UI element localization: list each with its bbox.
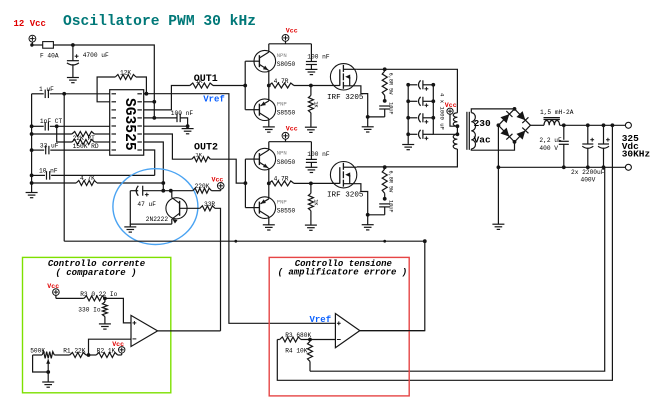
svg-text:PNP: PNP <box>277 198 288 205</box>
ground pulldown A <box>305 127 317 132</box>
svg-text:12 Vcc: 12 Vcc <box>14 19 46 29</box>
junction driver B base <box>244 181 248 185</box>
junction bank right <box>431 116 435 120</box>
wire OUT1 to driver1 base <box>213 85 245 87</box>
resistor gate pulldown 1K B <box>310 183 312 193</box>
wire 100nF to gnd node <box>180 118 187 126</box>
junction outer feedback tap <box>611 123 615 127</box>
M A drain tap <box>343 68 356 70</box>
svg-text:F 40A: F 40A <box>40 53 59 60</box>
wire Vcc to center tap <box>450 114 457 126</box>
wire wiper to ground <box>47 372 49 382</box>
wire source to ground B <box>367 215 369 225</box>
ground IC decoupling <box>187 126 189 128</box>
junction emitters A <box>267 84 271 88</box>
ground source B <box>362 225 374 230</box>
wire gate B <box>311 182 340 184</box>
Q NPN B emitter <box>259 162 268 168</box>
svg-text:R1 22K: R1 22K <box>63 347 86 354</box>
junction snubber mid B <box>383 197 387 201</box>
svg-text:Vcc: Vcc <box>286 126 298 133</box>
wire cap bank right rail <box>433 85 458 135</box>
wire pin11 to OUT1 resistor <box>144 86 190 110</box>
wire error amp output bus <box>64 241 425 330</box>
svg-text:4700 uF: 4700 uF <box>83 52 109 59</box>
wire cap bank left rail <box>407 85 409 144</box>
svg-text:500K: 500K <box>30 347 45 354</box>
resistor 4,7R B <box>269 181 294 186</box>
svg-text:6,8R 5W: 6,8R 5W <box>387 73 393 96</box>
junction 2,2uF top <box>562 123 566 127</box>
wire pin R5 <box>144 125 188 127</box>
M B gate bar <box>339 167 341 184</box>
junction 1uF line <box>62 92 66 96</box>
transistor PNP S8550 A circle <box>254 99 276 121</box>
svg-text:Vref: Vref <box>310 315 332 325</box>
svg-text:100 nF: 100 nF <box>171 110 194 117</box>
ground 100nF A <box>305 69 317 74</box>
resistor 220K <box>193 188 212 193</box>
wire OUT2 to driver2 base jog <box>210 159 245 183</box>
wire minus to ground <box>497 167 499 224</box>
resistor 150K RD <box>72 140 94 145</box>
capacitor 4700 uF <box>67 61 79 65</box>
wire inner feedback 0V to R4 <box>310 167 605 371</box>
Q1 emitter <box>172 213 179 219</box>
wire 47uF node to 220K <box>163 190 193 192</box>
transformer T1 primary top winding <box>453 113 457 126</box>
ground pot <box>42 382 54 387</box>
svg-text:22K RT: 22K RT <box>73 135 96 142</box>
svg-text:1K: 1K <box>313 199 319 206</box>
Q PNP A emitter <box>261 101 269 106</box>
capacitor 1000uF #2 <box>408 100 417 102</box>
svg-text:Oscillatore PWM 30 kHz: Oscillatore PWM 30 kHz <box>63 12 256 30</box>
inductor 1,5 mH-2A <box>544 120 560 125</box>
Q1 base wire <box>180 207 200 209</box>
op IC SG3525 body <box>110 90 144 156</box>
svg-text:1K: 1K <box>195 152 202 159</box>
junction emitters B <box>267 182 271 186</box>
svg-text:4,7R: 4,7R <box>274 176 289 183</box>
wire source to ground A <box>367 117 369 127</box>
wire secondary top to bridge <box>471 109 514 113</box>
junction snubber mid A <box>383 99 387 103</box>
transistor PNP S8550 B circle <box>254 197 276 219</box>
junction bank right <box>431 99 435 103</box>
Q PNP A collector <box>259 113 268 119</box>
ground PNP A <box>263 127 275 132</box>
wire driver B base rail <box>244 159 246 208</box>
Vcc terminal shunt <box>53 289 60 296</box>
Vcc terminal driver B <box>282 132 289 139</box>
wire shunt to comparator plus <box>105 298 131 323</box>
junction driver A base <box>243 84 247 88</box>
svg-text:2x 2200uF: 2x 2200uF <box>571 169 605 176</box>
Q NPN B base wire <box>245 158 259 160</box>
svg-text:2N2222: 2N2222 <box>146 216 169 223</box>
ground 330 <box>99 324 111 329</box>
resistor 12K <box>115 75 136 80</box>
wire minus rail <box>498 166 625 168</box>
resistor 1K OUT2 <box>192 157 211 162</box>
junction CT branch <box>55 124 59 128</box>
transformer T1 core <box>466 112 468 150</box>
wire node to capacitor 4700uF <box>72 45 74 61</box>
junction center tap <box>456 124 460 128</box>
svg-text:SG3525: SG3525 <box>121 98 137 151</box>
wire gate A <box>311 85 340 87</box>
junction bridge top <box>513 107 517 111</box>
ground cap bank <box>407 143 409 146</box>
resistor snubber 6,8R 5W A <box>384 69 386 71</box>
svg-text:R3 0,22 Io: R3 0,22 Io <box>80 291 117 298</box>
svg-text:47 uF: 47 uF <box>137 201 156 208</box>
diode bridge D3 <box>500 128 509 137</box>
svg-text:NPN: NPN <box>277 150 287 157</box>
M A substrate arrow <box>345 75 350 80</box>
junction gate node B <box>309 182 313 186</box>
junction collector node <box>169 189 173 193</box>
junction R7/4,7K <box>161 181 165 185</box>
transformer T1 secondary winding <box>471 113 475 149</box>
wire driver A Vcc rail <box>269 43 312 45</box>
resistor R1 22K <box>70 353 86 358</box>
resistor 33R <box>200 206 215 211</box>
resistor 4,7R A <box>269 83 294 88</box>
junction R7/47uF <box>161 189 165 193</box>
junction source/snubber B <box>366 213 370 217</box>
wire driver B Vcc rail <box>269 141 312 143</box>
capacitor snubber 10nF B <box>379 204 390 207</box>
M A gate bar <box>339 69 341 86</box>
junction bank left #1 <box>406 83 410 87</box>
resistor R3 0,22 shunt <box>84 296 105 301</box>
junction gate node A <box>309 84 313 88</box>
label plus 47uF <box>145 193 149 197</box>
svg-text:33R: 33R <box>204 201 215 208</box>
junction R1 R2 <box>87 353 91 357</box>
junction Vcc pin15 <box>152 116 156 120</box>
Q NPN A collector <box>259 52 268 58</box>
junction wiper <box>46 370 50 374</box>
U3 minus <box>337 339 341 341</box>
capacitor 1000uF #3 <box>408 117 417 119</box>
M B source <box>343 184 367 215</box>
Vcc terminal driver A <box>282 35 289 42</box>
junction 10nF rail <box>30 174 34 178</box>
Q PNP A base wire <box>245 109 259 111</box>
junction bus corner <box>423 239 427 243</box>
U2 minus <box>133 338 137 340</box>
svg-text:( comparatore ): ( comparatore ) <box>55 268 136 278</box>
M B drain tap <box>343 166 356 168</box>
wire Vcc to fuse <box>31 42 33 45</box>
junction bank left #2 <box>406 99 410 103</box>
M B substrate arrow <box>345 172 350 177</box>
Q NPN A base wire <box>245 60 259 62</box>
svg-text:30KHz: 30KHz <box>622 149 651 160</box>
svg-text:400V: 400V <box>581 177 596 184</box>
op-amp error U3 <box>335 314 359 348</box>
junction 33uF rail <box>30 148 34 152</box>
capacitor 2,2 uF 400V <box>563 125 565 140</box>
junction bridge bottom <box>513 140 517 144</box>
junction Vcc pin13 <box>152 100 156 104</box>
wire secondary bottom to bridge <box>471 142 514 150</box>
svg-text:NPN: NPN <box>277 52 287 59</box>
svg-text:Vcc: Vcc <box>47 283 59 290</box>
svg-text:330 Io: 330 Io <box>78 306 101 313</box>
wire error output <box>360 330 425 332</box>
Q NPN A base bar <box>258 55 260 67</box>
pot wiper <box>46 359 50 364</box>
diode bridge D2 <box>516 111 525 120</box>
capacitor 1000uF #1 <box>408 84 417 86</box>
svg-text:Vcc: Vcc <box>112 341 124 348</box>
junction CT rail <box>30 124 34 128</box>
Vcc terminal 12V <box>29 35 36 42</box>
capacitor 33 uF <box>32 149 45 151</box>
box current control <box>23 257 171 392</box>
svg-text:( amplificatore errore ): ( amplificatore errore ) <box>278 267 408 277</box>
diode bridge D4 <box>516 130 525 139</box>
junction bridge left <box>497 123 501 127</box>
wire pot return <box>33 355 49 372</box>
junction artifact b <box>383 240 386 243</box>
svg-text:2,2 uF: 2,2 uF <box>539 137 562 144</box>
resistor R3 680K <box>277 339 279 341</box>
svg-text:10nF: 10nF <box>387 102 393 114</box>
svg-text:4,7K: 4,7K <box>80 175 95 182</box>
svg-text:IRF 3205: IRF 3205 <box>327 192 364 200</box>
Q PNP B base bar <box>258 202 260 214</box>
ground 100nF B <box>305 167 317 172</box>
resistor R4 10K <box>309 340 311 342</box>
wire Vref pin to error amp <box>144 94 336 324</box>
M A source <box>343 86 367 117</box>
capacitor snubber 10nF A <box>379 106 390 109</box>
resistor 4,7K <box>32 182 77 184</box>
svg-text:R3 680K: R3 680K <box>285 332 311 339</box>
wire 47uF ground leg <box>130 191 172 224</box>
wire pin R7 down <box>144 142 164 191</box>
svg-text:Vac: Vac <box>474 135 491 146</box>
Vcc terminal 220K <box>217 183 224 190</box>
svg-text:4,7R: 4,7R <box>274 78 289 85</box>
wire pin14 to OUT2 resistor <box>144 134 192 159</box>
capacitor 47 uF <box>130 190 138 192</box>
svg-text:10nF: 10nF <box>387 200 393 212</box>
junction 2,2uF bottom <box>562 165 566 169</box>
potentiometer 500K <box>33 354 43 356</box>
capacitor 2200uF #1 <box>587 125 589 144</box>
svg-text:100 nF: 100 nF <box>307 53 330 60</box>
svg-text:1K: 1K <box>313 101 319 108</box>
wire fuse to node <box>53 44 73 46</box>
wire cap to ground <box>72 64 74 77</box>
Q PNP B base wire <box>245 207 259 209</box>
node 12V rail <box>71 43 75 47</box>
box voltage control <box>269 257 409 396</box>
junction shunt divider <box>103 297 107 301</box>
Q PNP B collector <box>259 211 268 217</box>
junction 2200uF bottom #2 <box>602 165 606 169</box>
IC pin stubs <box>112 93 117 95</box>
junction drain snubber B <box>383 165 387 169</box>
junction RT rail <box>30 132 34 136</box>
Vcc terminal transformer <box>447 108 453 114</box>
svg-text:150K RD: 150K RD <box>73 143 99 150</box>
transistor Q1 2N2222 circle <box>166 198 187 219</box>
svg-text:S8550: S8550 <box>277 110 296 117</box>
ground left rail <box>26 193 38 198</box>
U2 plus <box>133 321 137 325</box>
junction 12K/Vref <box>145 92 149 96</box>
bridge diamond wires <box>498 109 530 142</box>
svg-text:S8050: S8050 <box>277 159 296 166</box>
wire divider to minus <box>310 339 335 341</box>
transformer T1 primary bottom winding <box>453 134 457 149</box>
wire Vcc to R3 shunt <box>55 295 57 298</box>
junction bank left #4 <box>406 132 410 136</box>
svg-text:6,8R 5W: 6,8R 5W <box>387 171 393 194</box>
Q NPN B collector <box>259 150 268 156</box>
svg-text:Vcc: Vcc <box>445 102 457 109</box>
wire bridge left to minus rail <box>497 125 499 167</box>
svg-text:1 uF: 1 uF <box>39 86 54 93</box>
svg-text:100 nF: 100 nF <box>307 151 330 158</box>
capacitor 1 uF <box>32 93 44 95</box>
junction 2200uF bottom #1 <box>586 165 590 169</box>
capacitor 100nF A <box>310 44 312 62</box>
svg-text:R2 1K: R2 1K <box>97 347 116 354</box>
capacitor 10 nF <box>32 174 45 176</box>
fuse F 40A <box>43 42 54 49</box>
junction source/snubber A <box>366 115 370 119</box>
op-amp comparator U2 <box>131 315 158 346</box>
ground output <box>492 224 504 229</box>
U3 plus <box>337 321 341 325</box>
M A channel bar <box>342 65 344 72</box>
svg-text:PNP: PNP <box>277 100 288 107</box>
junction bank left #3 <box>406 116 410 120</box>
wire bridge to inductor <box>530 124 544 126</box>
resistor R2 1K <box>96 353 118 358</box>
wire pin R8 to 10nF line <box>144 150 155 175</box>
wire pin R2 <box>144 101 155 103</box>
svg-text:S8050: S8050 <box>277 61 296 68</box>
capacitor 100nF B <box>310 142 312 160</box>
wire comp feedback vertical <box>63 94 65 241</box>
junction artifact a <box>234 240 237 243</box>
wire driver A base rail <box>244 61 246 109</box>
Q PNP B emitter <box>261 199 269 204</box>
Q NPN A emitter <box>259 64 268 70</box>
wire pin R4 to 100nF <box>144 117 177 119</box>
terminal output plus <box>625 122 631 128</box>
ground pulldown B <box>305 225 317 230</box>
svg-text:220K: 220K <box>195 183 210 190</box>
svg-text:4 x 1000 uF: 4 x 1000 uF <box>439 93 446 130</box>
ground PNP B <box>263 225 275 230</box>
wire minus input <box>89 339 132 355</box>
svg-text:12K: 12K <box>120 70 131 77</box>
wire plus rail <box>560 124 626 126</box>
junction drain snubber A <box>383 67 387 71</box>
wire 220K to Vcc <box>212 190 221 192</box>
junction 2200uF top #2 <box>602 123 606 127</box>
M B channel bar <box>342 163 344 170</box>
wire comparator output <box>158 330 221 332</box>
highlight blue circle <box>113 169 198 245</box>
resistor 1K OUT1 <box>190 83 213 88</box>
wire drain1 to primary top <box>357 69 458 113</box>
capacitor 2200uF #2 <box>603 125 605 144</box>
junction IC gnd <box>186 124 190 128</box>
capacitor 1000uF #4 <box>408 133 417 135</box>
svg-text:1nF CT: 1nF CT <box>40 118 63 125</box>
resistor snubber 6,8R 5W B <box>384 167 386 169</box>
wire CT to RD <box>57 126 72 142</box>
Q1 collector <box>172 198 180 204</box>
resistor 330 Io <box>104 298 106 302</box>
wire 33R to comparator out <box>215 208 221 331</box>
Q NPN B base bar <box>258 153 260 165</box>
svg-text:10 nF: 10 nF <box>39 168 58 175</box>
svg-text:R4 10K: R4 10K <box>285 348 308 355</box>
wire drain2 to primary bottom <box>357 149 458 167</box>
junction bank tap <box>456 132 460 136</box>
svg-text:400 V: 400 V <box>539 145 558 152</box>
transistor IRF 3205 A circle <box>330 64 356 90</box>
wire left ground rail <box>31 94 33 193</box>
Q PNP A base bar <box>258 104 260 116</box>
capacitor 100 nF IC <box>177 114 180 123</box>
svg-text:IRF 3205: IRF 3205 <box>327 94 364 102</box>
terminal output minus <box>625 164 631 170</box>
junction 4,7K rail <box>30 181 34 185</box>
svg-text:Vref: Vref <box>203 95 225 105</box>
svg-text:1K: 1K <box>196 78 203 85</box>
junction bank right <box>431 83 435 87</box>
ground source A <box>362 127 374 132</box>
svg-text:Vcc: Vcc <box>286 28 298 35</box>
resistor 22K RT <box>32 133 72 135</box>
Q1 base bar <box>179 201 181 216</box>
transistor NPN S8050 B circle <box>254 148 276 170</box>
transistor NPN S8050 A circle <box>254 50 276 72</box>
svg-text:230: 230 <box>474 118 491 129</box>
wire pin1 to 12K <box>97 77 115 102</box>
svg-text:S8550: S8550 <box>277 208 296 215</box>
resistor gate pulldown 1K A <box>310 86 312 96</box>
svg-text:Vcc: Vcc <box>212 177 224 184</box>
junction R3 R4 <box>308 338 312 342</box>
ground 47uF <box>129 224 131 227</box>
svg-text:1,5 mH-2A: 1,5 mH-2A <box>540 109 574 116</box>
ground below 4700uF <box>67 78 79 83</box>
capacitor 1nF CT <box>32 125 44 127</box>
transistor IRF 3205 B circle <box>330 162 356 188</box>
wire node to SG3525 Vcc pins <box>73 45 154 118</box>
wire 12K to Vref line <box>136 77 146 94</box>
wire outer feedback +325V to R3 <box>277 125 612 380</box>
svg-text:33 uF: 33 uF <box>40 143 59 150</box>
diode bridge D1 <box>500 114 509 123</box>
junction 2200uF top #1 <box>586 123 590 127</box>
junction minus gnd <box>497 165 501 169</box>
